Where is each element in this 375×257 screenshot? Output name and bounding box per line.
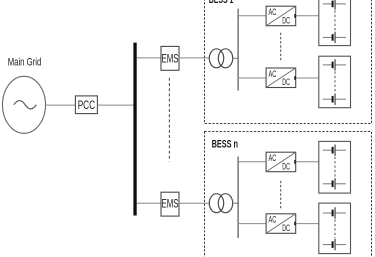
wire: bus to EMS n: [137, 202, 161, 204]
battery rack 1 of BESS1: [319, 0, 351, 46]
svg-text:PCC: PCC: [78, 98, 96, 112]
battery cell 3b: [323, 178, 346, 189]
battery rack 1 of BESSn: [319, 141, 351, 193]
svg-text:DC: DC: [282, 77, 290, 87]
battery rack 2 of BESSn: [319, 203, 351, 254]
battery cell 2a: [323, 59, 346, 70]
battery cell 1b: [323, 32, 346, 43]
svg-text:EMS: EMS: [162, 51, 179, 65]
transformer Tn: [209, 194, 232, 213]
battery cell 4b: [323, 239, 346, 250]
converter U4 AC/DC (BESSn bottom): [266, 214, 296, 234]
wire: Tn to BESSn feeder: [233, 202, 239, 204]
converter U3 AC/DC (BESSn top): [266, 152, 296, 172]
battery cell 1a: [323, 0, 346, 10]
wire: EMS n to transformer Tn: [179, 202, 209, 204]
BESS1 feeder bus: [237, 9, 239, 91]
ellipsis converters BESSn: [280, 181, 282, 209]
battery cell 2b: [323, 94, 346, 105]
wire: feeder to converter U2: [238, 77, 266, 79]
svg-text:DC: DC: [282, 15, 290, 25]
svg-text:BESS n: BESS n: [212, 139, 239, 151]
BESS n enclosure (dashed): [205, 132, 372, 257]
ellipsis cells rack1: [334, 10, 336, 31]
svg-text:AC: AC: [269, 7, 277, 17]
svg-text:Main Grid: Main Grid: [8, 56, 42, 68]
wire: bus to EMS1: [137, 57, 161, 59]
battery rack 2 of BESS1: [319, 56, 351, 107]
ellipsis cells rack4: [334, 220, 336, 239]
main bus bar: [133, 43, 136, 216]
svg-text:AC: AC: [269, 69, 277, 79]
wire: T1 to BESS1 feeder: [233, 57, 239, 59]
wire: grid to PCC: [46, 104, 76, 106]
battery cell 4a: [323, 207, 346, 218]
wire: feeder to converter U4: [238, 223, 266, 225]
wire: U2 to battery rack 2: [296, 77, 319, 79]
wire: EMS1 to transformer T1: [179, 57, 209, 59]
BESSn feeder bus: [237, 157, 239, 239]
wire: U1 to battery rack 1: [296, 15, 319, 17]
svg-text:EMS: EMS: [162, 197, 179, 211]
svg-text:BESS 1: BESS 1: [209, 0, 234, 6]
ellipsis converters BESS1: [280, 33, 282, 61]
ellipsis cells rack3: [334, 157, 336, 178]
ellipsis cells rack2: [334, 71, 336, 92]
svg-text:DC: DC: [282, 161, 290, 171]
EMS unit 1: [161, 46, 179, 70]
converter U1 AC/DC (BESS1 top): [266, 6, 296, 26]
wire: PCC to main bus: [97, 104, 133, 106]
transformer T1: [209, 49, 232, 68]
wire: feeder to converter U3: [238, 161, 266, 163]
svg-text:AC: AC: [269, 215, 277, 225]
ellipsis EMS units: [168, 78, 170, 162]
AC source G1 (Main Grid): [3, 76, 46, 133]
battery cell 3a: [323, 145, 346, 156]
BESS 1 enclosure (dashed): [205, 0, 372, 124]
node PCC: [75, 96, 97, 114]
EMS unit n: [161, 192, 179, 216]
svg-text:DC: DC: [282, 223, 290, 233]
wire: U4 to battery rack 4: [296, 223, 319, 225]
wire: U3 to battery rack 3: [296, 161, 319, 163]
converter U2 AC/DC (BESS1 bottom): [266, 68, 296, 88]
svg-text:AC: AC: [269, 153, 277, 163]
wire: feeder to converter U1: [238, 15, 266, 17]
